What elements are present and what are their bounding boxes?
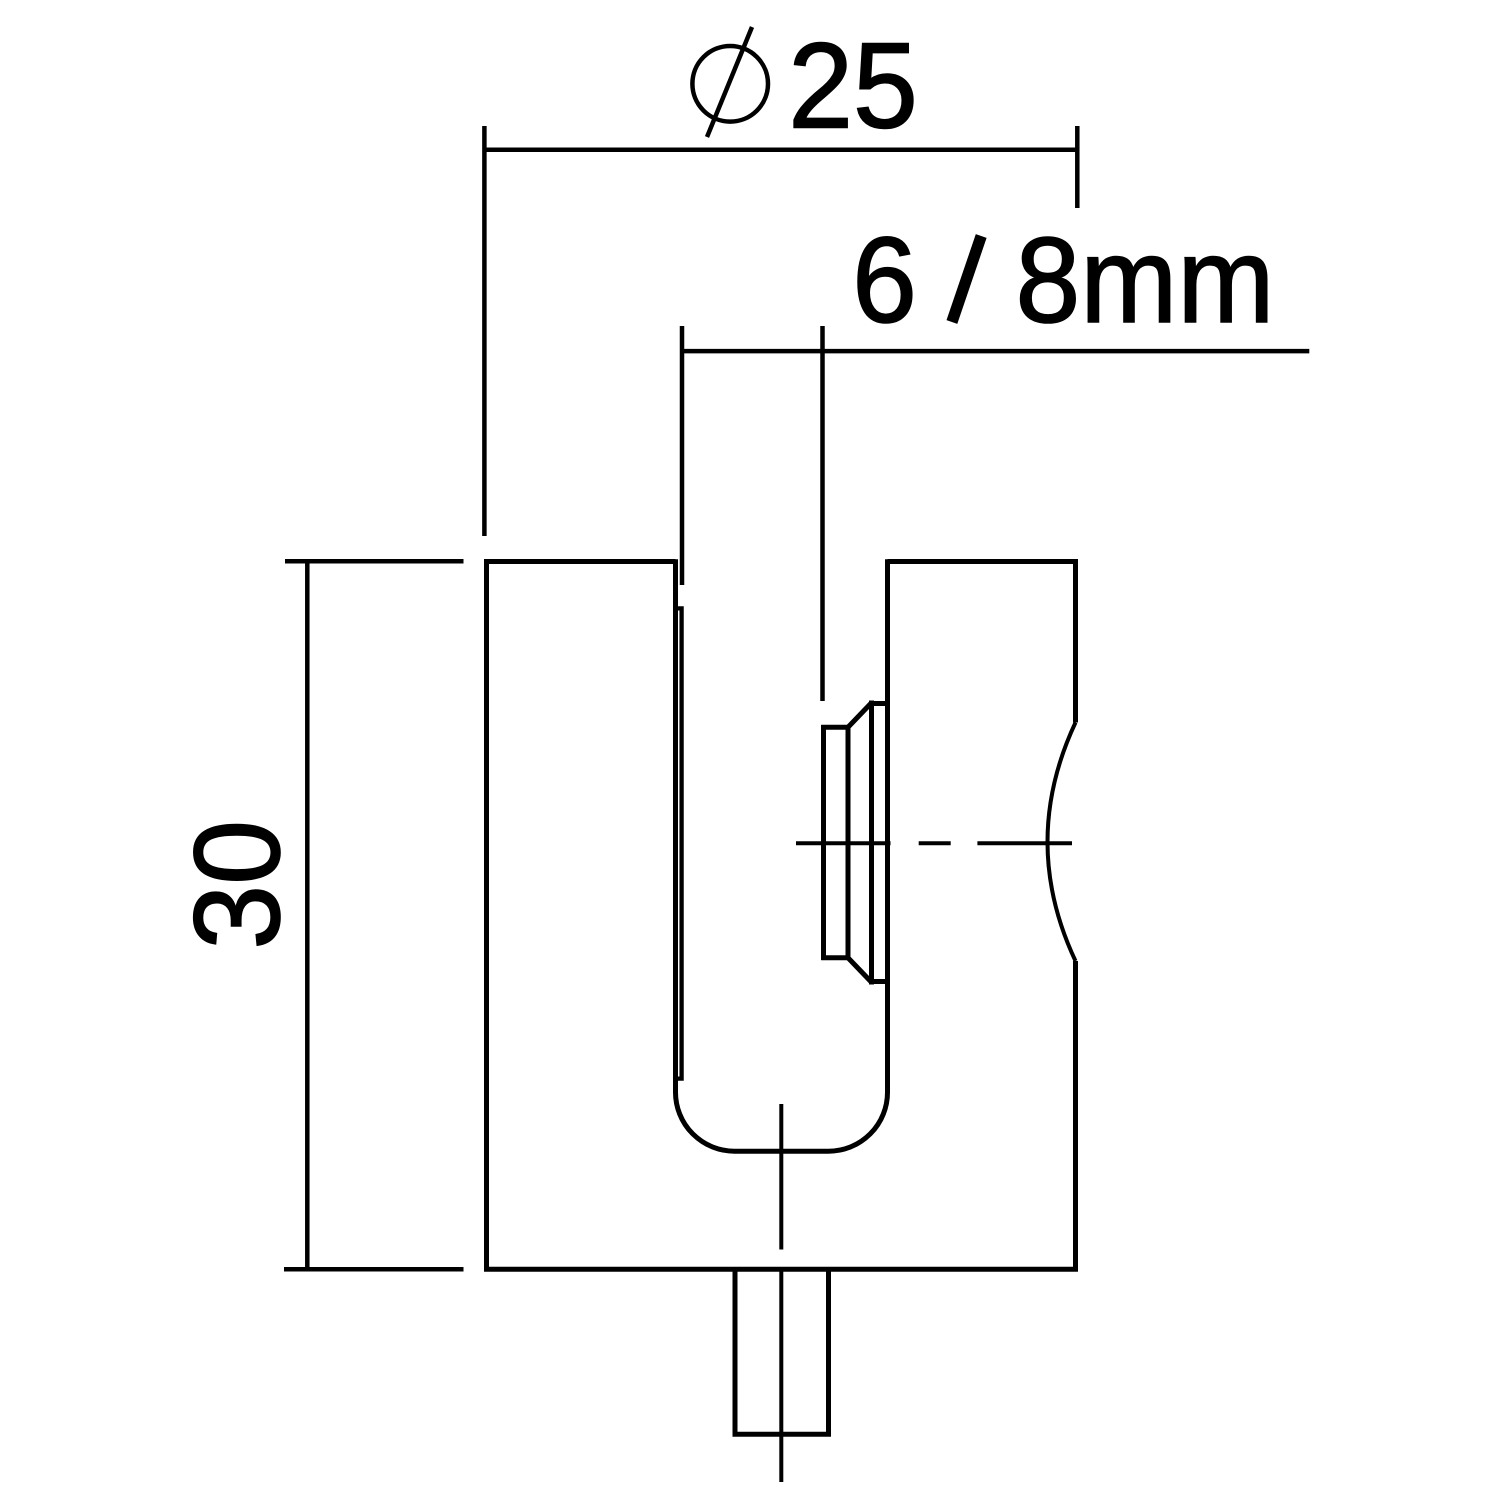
vertical center line of stem [779,1104,783,1482]
slot U walls and rounded bottom [676,559,888,1151]
horizontal center line dash dot [796,841,1072,845]
screw bottom tick to slot wall [872,979,888,984]
screw head inner vertical [846,725,851,960]
dimension line 6/8mm [682,349,1309,354]
extension line 6/8mm left [680,326,685,585]
extension line D25 right [1075,126,1080,208]
stem outline [735,1269,829,1434]
screw face line [821,725,826,960]
diameter symbol slash [707,27,752,137]
extension tick 30 top [285,559,464,564]
svg-text:8mm: 8mm [1016,213,1275,349]
svg-text:30: 30 [170,820,306,950]
extension line 6/8mm right [820,326,825,701]
diameter symbol circle [692,46,768,122]
extension line D25 left [482,126,487,536]
body outline right top edge and right upper edge [888,562,1076,723]
dimension line D25 [485,148,1079,153]
break line curve on right edge [1048,723,1076,962]
screw head bottom edge [821,955,848,960]
screw countersink bottom chamfer [848,958,872,983]
glass panel strip in slot [677,608,681,1078]
dimension line 30 [305,561,310,1269]
svg-text:25: 25 [788,18,918,154]
screw outer vertical [869,701,874,985]
dimension text slash [952,236,981,322]
extension tick 30 bottom [284,1267,464,1272]
body outline left top edge, left edge, bottom edge, right lower edge [487,562,1076,1270]
screw top tick to slot wall [872,701,888,706]
svg-text:6: 6 [852,213,917,349]
screw head top edge [821,725,848,730]
screw countersink top chamfer [848,703,872,728]
